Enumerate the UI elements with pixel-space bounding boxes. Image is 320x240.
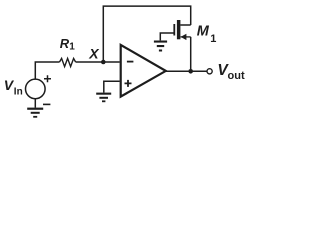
svg-text:1: 1 — [69, 42, 75, 53]
svg-text:In: In — [14, 87, 23, 98]
svg-text:X: X — [88, 45, 100, 61]
svg-text:out: out — [228, 70, 245, 82]
svg-text:1: 1 — [210, 33, 216, 45]
svg-text:M: M — [197, 23, 210, 39]
